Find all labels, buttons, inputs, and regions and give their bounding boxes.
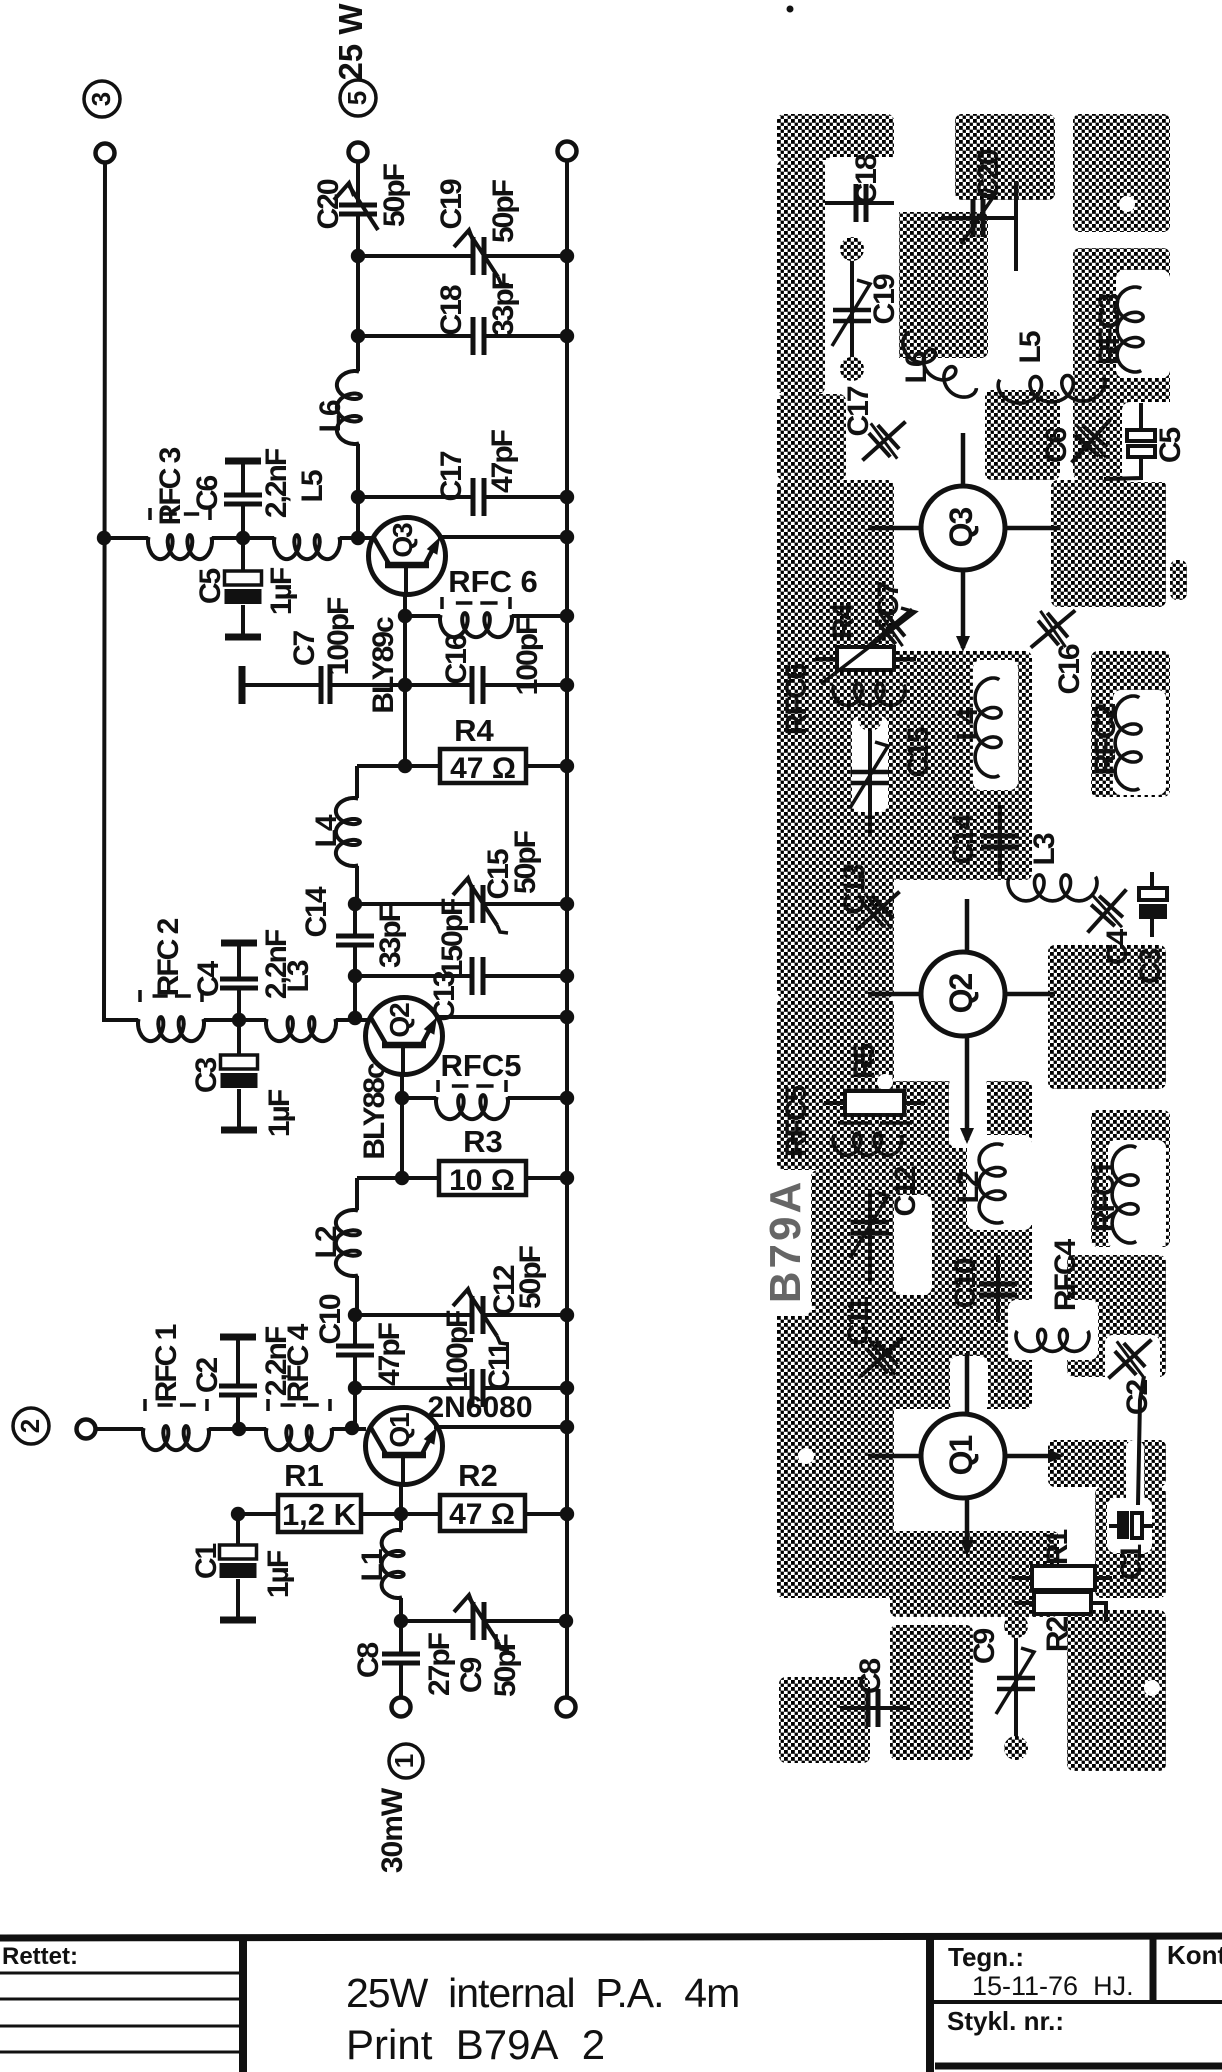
svg-text:C7: C7 [288,631,321,667]
pcb inductor L3 [1008,875,1097,901]
pcb capacitor C3 electrolytic [1150,872,1154,889]
svg-text:Q2: Q2 [384,1003,415,1038]
pcb inductor RFC6 [833,683,905,705]
svg-text:30mW: 30mW [376,1787,409,1873]
svg-text:RFC 2: RFC 2 [152,918,185,996]
svg-text:Rettet:: Rettet: [2,1943,78,1970]
svg-text:RFC4: RFC4 [1049,1239,1082,1312]
svg-text:RFC 6: RFC 6 [448,564,538,599]
capacitor C4 2.2nF [221,940,257,947]
wire C18 row [358,334,473,338]
svg-text:2: 2 [15,1419,45,1433]
pcb trimmer C9 [1014,1629,1018,1745]
inductor RFC6 [405,614,440,618]
svg-text:RFC3: RFC3 [1093,294,1126,366]
inductor RFC1 [95,1427,143,1431]
capacitor C14 33pF [353,904,357,934]
svg-text:B79A: B79A [761,1179,810,1304]
svg-text:C12: C12 [889,1166,922,1216]
svg-text:100pF: 100pF [511,617,544,695]
pcb capacitor C13 [856,892,899,931]
wire C15 row [355,902,472,906]
capacitor C13 150pF [470,957,475,995]
svg-text:Q3: Q3 [943,507,979,547]
svg-text:L2: L2 [310,1226,343,1258]
pcb trimmer C15 [868,722,872,844]
svg-text:50pF: 50pF [489,1633,522,1697]
svg-text:L6: L6 [314,400,347,432]
svg-text:C4: C4 [192,961,225,998]
pcb trimmer C4 [1088,889,1127,932]
title block top border [0,1936,1222,1938]
svg-text:C10: C10 [314,1294,347,1344]
inductor L3 [266,1017,336,1041]
svg-text:C11: C11 [842,1297,875,1346]
svg-text:Q1: Q1 [943,1435,979,1475]
svg-text:33pF: 33pF [487,272,520,336]
wire C11 row [355,1386,472,1390]
resistor R2 47ohm [401,1512,440,1516]
capacitor C1 1uF electrolytic [231,1507,245,1521]
wire C12 row [355,1313,472,1317]
inductor L6 [337,371,361,444]
pcb capacitor C16 [1031,610,1075,647]
svg-text:150pF: 150pF [436,898,469,976]
inductor L4 [355,766,359,798]
svg-text:C11: C11 [483,1342,516,1391]
trimmer capacitor C9 50pF [471,1602,476,1640]
svg-text:3: 3 [86,92,116,106]
capacitor C11 100pF [470,1369,475,1407]
svg-text:C9: C9 [455,1658,488,1694]
pcb inductor RFC1 [1112,1146,1138,1243]
svg-text:R1: R1 [284,1458,324,1493]
capacitor C2 2.2nF [220,1334,256,1341]
svg-text:C14: C14 [947,813,980,864]
wire Q1 emitter [399,1484,403,1514]
svg-text:Kontr.:: Kontr.: [1167,1940,1222,1970]
pcb capacitor C2 [1108,1340,1151,1379]
svg-text:C16: C16 [440,634,473,684]
svg-text:R5: R5 [848,1044,881,1080]
pcb capacitor C14 [998,805,1002,876]
node 2 terminal [13,1408,49,1444]
svg-text:47 Ω: 47 Ω [449,1498,515,1531]
inductor L2 [355,1178,359,1210]
wire C19 row [358,254,473,258]
pcb inductor RFC4 [1016,1329,1089,1351]
svg-text:R3: R3 [463,1124,503,1159]
svg-text:50pF: 50pF [487,179,520,243]
svg-text:C8: C8 [352,1643,385,1679]
capacitor C8 27pF [399,1621,403,1652]
pcb resistor R1 [1032,1566,1095,1590]
svg-text:Stykl. nr.:: Stykl. nr.: [947,2006,1064,2036]
svg-text:L1: L1 [356,1549,389,1581]
wire C17 row [358,495,473,499]
svg-text:C4: C4 [1101,929,1134,966]
svg-text:15-11-76 HJ.: 15-11-76 HJ. [972,1971,1134,2001]
svg-text:R4: R4 [454,713,494,748]
svg-text:10 Ω: 10 Ω [449,1164,515,1197]
capacitor C18 33pF [471,317,476,355]
svg-text:R1: R1 [1041,1530,1074,1566]
svg-text:Q3: Q3 [387,523,418,558]
svg-text:C10: C10 [949,1258,982,1308]
svg-text:L6: L6 [900,351,933,383]
capacitor C3 1uF electrolytic [237,1020,241,1055]
transistor Q3 BLY89c [358,536,374,540]
pcb inductor RFC5 [833,1133,902,1155]
svg-text:C1: C1 [1115,1545,1148,1581]
svg-text:5: 5 [342,91,372,105]
wire Q2 emitter [400,1074,404,1098]
trimmer capacitor C15 50pF [470,885,475,923]
svg-text:1µF: 1µF [262,1550,295,1598]
pcb trimmer C6 [1072,419,1111,462]
wire to Q1 base [353,1388,357,1428]
svg-text:RFC6: RFC6 [780,664,813,736]
svg-text:47 Ω: 47 Ω [450,752,516,785]
svg-text:BLY89c: BLY89c [367,617,400,714]
svg-text:Print B79A 2: Print B79A 2 [346,2021,605,2068]
svg-text:C15: C15 [902,727,935,777]
svg-text:L3: L3 [282,960,315,992]
node 1 terminal 30mW [389,1744,423,1778]
svg-text:C8: C8 [854,1659,887,1695]
svg-text:L5: L5 [296,470,329,502]
svg-text:L4: L4 [310,814,343,847]
capacitor C5 1uF electrolytic [241,538,245,571]
svg-text:RFC 1: RFC 1 [150,1324,183,1402]
resistor R4 47ohm [357,764,440,768]
inductor L5 [274,535,340,559]
svg-text:C5: C5 [1154,428,1187,464]
svg-text:RFC 3: RFC 3 [154,447,187,525]
pcb resistor R5 [845,1091,904,1115]
svg-text:C18: C18 [435,285,468,335]
pcb inductor L5 [998,376,1105,404]
svg-text:C14: C14 [300,886,333,937]
svg-text:C6: C6 [191,476,224,512]
inductor RFC4 [266,1426,332,1450]
svg-text:1: 1 [389,1754,419,1768]
svg-text:C17: C17 [435,451,468,501]
svg-text:25 W: 25 W [332,3,369,81]
svg-text:1,2 K: 1,2 K [282,1497,357,1532]
svg-text:C20: C20 [972,149,1005,199]
wire node 5 vertical line [356,161,360,205]
svg-text:C17: C17 [842,386,875,436]
svg-text:C3: C3 [1134,949,1167,985]
pcb trimmer C19 [850,252,854,366]
svg-text:C7: C7 [872,582,905,618]
pcb capacitor C17 [862,422,905,461]
svg-text:C20: C20 [312,179,345,229]
pcb resistor R4 [837,647,894,670]
pcb trimmer C7 [868,609,912,646]
inductor RFC3 [148,535,212,559]
pcb inductor L6 [903,332,976,397]
svg-text:50pF: 50pF [378,163,411,227]
wire ground bus right [565,161,569,1698]
wire C9 row [401,1619,473,1623]
capacitor C17 47pF [471,478,476,516]
trimmer capacitor C19 50pF [471,237,476,275]
svg-text:100pF: 100pF [322,597,355,675]
svg-text:100pF: 100pF [441,1310,474,1388]
svg-text:50pF: 50pF [514,1245,547,1309]
pcb white channels [825,157,899,394]
svg-text:C2: C2 [191,1358,224,1394]
pcb capacitor C1 electrolytic [1117,1511,1129,1539]
capacitor C16 100pF [405,683,472,687]
pcb capacitor C11 [860,1338,903,1377]
svg-text:L3: L3 [1028,833,1061,865]
wire from node 3 down to RFC2 [104,162,138,1020]
svg-text:Q2: Q2 [943,973,979,1013]
inductor RFC5 [402,1096,436,1100]
pcb resistor R2 [1034,1592,1091,1614]
svg-text:RFC5: RFC5 [780,1086,813,1158]
wire RFC3 to C6 node [104,536,148,540]
svg-text:C9: C9 [968,1629,1001,1665]
pcb white lead channels [949,1077,987,1148]
wire Q3 emitter to R4 [403,685,407,766]
svg-text:RFC5: RFC5 [441,1048,522,1083]
svg-text:25W internal P.A. 4m: 25W internal P.A. 4m [346,1970,739,2016]
svg-text:47pF: 47pF [373,1322,406,1386]
pcb capacitor C18 [825,201,894,205]
svg-text:L5: L5 [1014,331,1047,363]
capacitor C7 100pF [239,666,246,704]
pcb inductor L2 [979,1144,1005,1223]
pcb inductor RFC2 [1115,696,1141,790]
capacitor C10 47pF [353,1315,357,1344]
pcb white pads [1119,196,1135,212]
pcb transistor Q2 [921,952,1005,1036]
svg-text:BLY88c: BLY88c [358,1063,391,1160]
svg-text:2N6080: 2N6080 [427,1391,532,1424]
svg-text:1µF: 1µF [263,1089,296,1137]
pcb transistor Q3 [921,486,1005,570]
node 3 terminal [84,81,120,117]
resistor R1 1.2K [238,1512,278,1516]
svg-text:C3: C3 [190,1058,223,1094]
transistor Q1 2N6080 [434,1425,567,1429]
pcb inductor L4 [975,678,1001,777]
pcb trace C2 to C1 [1138,1376,1144,1505]
svg-text:1µF: 1µF [265,567,298,615]
scan speck top [787,6,794,13]
svg-text:C13: C13 [838,864,871,914]
svg-text:R2: R2 [458,1458,498,1493]
svg-text:RFC1: RFC1 [1088,1161,1121,1233]
title block Tegn section [926,1936,934,2072]
svg-text:RFC2: RFC2 [1089,704,1122,776]
resistor R3 10ohm [357,1176,439,1180]
pcb transistor Q1 [921,1414,1005,1498]
svg-text:C5: C5 [194,569,227,605]
wire Q2 emitter to R3 [400,1098,404,1178]
pcb trimmer C12 [868,1180,872,1290]
svg-text:L2: L2 [952,1171,985,1203]
wire C13 row [355,974,472,978]
pcb inductor RFC3 [1117,287,1143,372]
trimmer capacitor C20 50pF [339,203,377,208]
inductor RFC2 [138,1017,204,1041]
wire Q3 emitter [403,594,407,685]
svg-text:Tegn.:: Tegn.: [948,1942,1024,1972]
svg-text:C19: C19 [868,274,901,324]
svg-text:50pF: 50pF [509,830,542,894]
svg-text:2,2nF: 2,2nF [260,448,293,518]
transistor Q2 BLY88c [435,1015,567,1019]
trimmer capacitor C12 50pF [470,1296,475,1334]
pcb copper pour blocks [777,114,894,160]
svg-text:27pF: 27pF [423,1632,456,1696]
svg-text:RFC 4: RFC 4 [282,1323,315,1402]
svg-text:33pF: 33pF [374,904,407,968]
svg-text:C6: C6 [1040,428,1073,464]
svg-text:C2: C2 [1121,1380,1154,1416]
svg-text:47pF: 47pF [486,429,519,493]
svg-text:R4: R4 [827,603,860,640]
svg-text:Q1: Q1 [384,1413,415,1448]
svg-text:R2: R2 [1041,1617,1074,1653]
inductor L1 [399,1514,403,1530]
svg-text:C16: C16 [1053,644,1086,694]
svg-text:C18: C18 [850,154,883,204]
pcb capacitor C8 [840,1706,910,1710]
pcb capacitor C10 [996,1255,1000,1322]
pcb capacitor C5 electrolytic [1139,403,1143,431]
svg-text:C1: C1 [190,1544,223,1580]
wire to Q2 base [353,976,357,1018]
pcb trimmer C20 [941,216,1016,220]
capacitor C6 2.2nF [225,458,261,465]
svg-text:C19: C19 [435,179,468,229]
svg-text:L4: L4 [951,707,984,740]
